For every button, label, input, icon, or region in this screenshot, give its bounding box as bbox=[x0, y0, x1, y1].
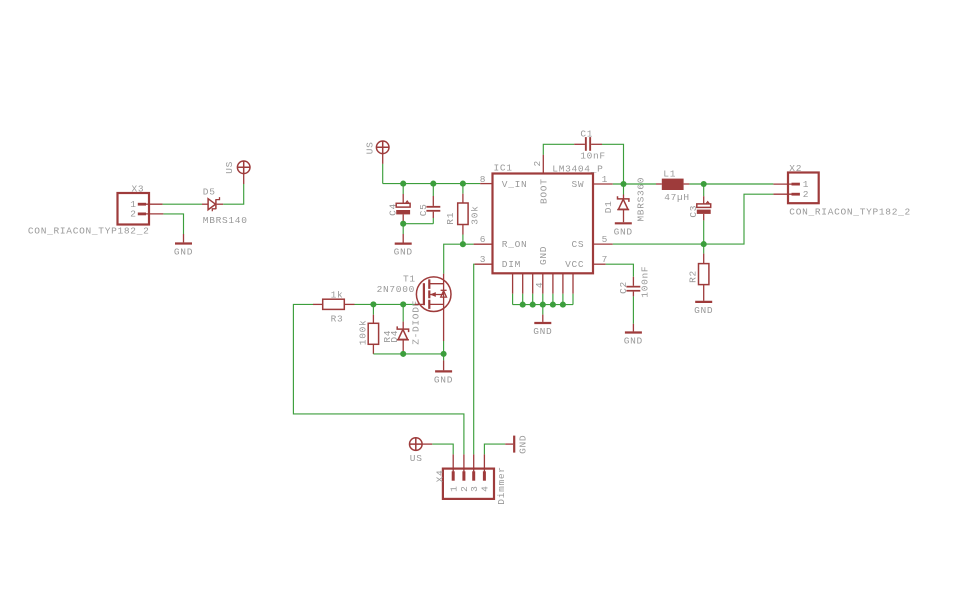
wire D5 cathode to supply US corner bbox=[223, 184, 244, 204]
resistor R4 100k bbox=[357, 315, 393, 354]
node junction D4/gate rail bbox=[400, 301, 406, 307]
ground below T1 bbox=[434, 360, 453, 385]
svg-text:GND: GND bbox=[434, 374, 453, 385]
svg-text:IC1: IC1 bbox=[494, 163, 513, 174]
connector X2 bbox=[788, 163, 911, 218]
wire X4.4 to ground (sideways) bbox=[484, 444, 505, 454]
wire D4 top bbox=[402, 304, 404, 321]
node junction SW/C1/D1 bbox=[620, 181, 626, 187]
ground right of X4 (sideways) bbox=[505, 435, 528, 454]
ground below C4 bbox=[394, 234, 413, 258]
pin IC1.6 R_ON bbox=[474, 243, 493, 245]
svg-text:US: US bbox=[410, 453, 423, 464]
wire to ground below C4 bbox=[402, 224, 404, 234]
pin X3.1 bbox=[144, 203, 163, 205]
wire US down to V_IN rail bbox=[382, 164, 384, 184]
ground below IC bbox=[533, 315, 552, 338]
svg-text:X3: X3 bbox=[132, 183, 145, 194]
svg-text:R2: R2 bbox=[688, 270, 699, 283]
capacitor C5 bbox=[418, 196, 440, 218]
svg-text:100k: 100k bbox=[357, 320, 368, 346]
resistor R3 1k bbox=[313, 290, 355, 325]
node junction R4-D4 rail bbox=[400, 351, 406, 357]
wire X3.2 to ground bbox=[163, 214, 183, 234]
diode D1 MBRS360 bbox=[603, 177, 647, 222]
ground below X3 bbox=[174, 234, 193, 258]
node junction L1/C3 bbox=[701, 181, 707, 187]
svg-text:X2: X2 bbox=[789, 163, 802, 174]
svg-text:7: 7 bbox=[602, 254, 608, 265]
svg-text:1: 1 bbox=[602, 174, 608, 185]
svg-text:LM3404_P: LM3404_P bbox=[552, 163, 603, 174]
zener diode D4 Z-DIODE bbox=[389, 300, 422, 354]
svg-text:30k: 30k bbox=[470, 205, 481, 224]
node junction CS/C3/R2/X2.2 bbox=[701, 241, 707, 247]
pin X4.3 bbox=[473, 454, 475, 473]
pin X3.2 bbox=[144, 213, 163, 215]
svg-text:US: US bbox=[224, 161, 235, 174]
svg-text:GND: GND bbox=[614, 226, 633, 237]
svg-text:10nF: 10nF bbox=[580, 150, 606, 161]
svg-text:BOOT: BOOT bbox=[538, 178, 549, 204]
node junction T1 source bbox=[441, 351, 447, 357]
svg-text:D1: D1 bbox=[603, 200, 614, 213]
wire R1 top bbox=[462, 184, 464, 194]
svg-text:C4: C4 bbox=[388, 203, 399, 216]
supply US (near X4) bbox=[410, 438, 433, 464]
wire source rail (bottom) bbox=[373, 353, 443, 355]
connector X4 Dimmer bbox=[435, 466, 508, 504]
capacitor C4 (polarized) bbox=[388, 194, 411, 222]
wire R2 top bbox=[703, 244, 705, 254]
ground below R2 bbox=[694, 302, 713, 316]
wire C5 top bbox=[432, 184, 434, 196]
capacitor C3 (polarized) bbox=[688, 196, 711, 220]
transistor T1 2N7000 bbox=[377, 274, 451, 341]
resistor R2 bbox=[688, 254, 709, 301]
svg-text:C3: C3 bbox=[688, 205, 699, 218]
node junction R1/R_ON bbox=[460, 241, 466, 247]
wire R1 bottom to R_ON node bbox=[462, 235, 464, 245]
wire C3 bottom to CS node bbox=[703, 220, 705, 244]
svg-text:2: 2 bbox=[130, 209, 136, 220]
pin IC1.7 VCC bbox=[593, 263, 606, 265]
svg-text:GND: GND bbox=[533, 326, 552, 337]
wire BOOT to C1 left bbox=[543, 144, 574, 154]
inductor L1 47uH bbox=[656, 169, 690, 204]
svg-text:C1: C1 bbox=[580, 128, 593, 139]
node junctions on GND bus bbox=[520, 302, 526, 308]
wire R3 left down around to X4.2 bbox=[293, 304, 464, 454]
node junction V_IN/R1 bbox=[460, 181, 466, 187]
supply US (mid, above C4) bbox=[364, 141, 389, 164]
wire SW node down to D1 bbox=[623, 184, 625, 195]
svg-text:GND: GND bbox=[394, 247, 413, 258]
wire C1 right down to SW node bbox=[602, 144, 624, 184]
svg-text:2N7000: 2N7000 bbox=[377, 284, 415, 295]
diode D5 MBRS140 bbox=[202, 186, 248, 225]
pin IC1.1 SW bbox=[593, 183, 613, 185]
svg-text:100nF: 100nF bbox=[639, 266, 650, 298]
pin IC1.5 CS bbox=[593, 243, 613, 245]
svg-text:GND: GND bbox=[624, 336, 643, 347]
IC U1 LM3404 box bbox=[493, 163, 604, 274]
svg-text:L1: L1 bbox=[663, 169, 676, 180]
svg-text:C2: C2 bbox=[618, 281, 629, 294]
svg-text:MBRS360: MBRS360 bbox=[636, 177, 647, 222]
capacitor C2 100nF bbox=[618, 266, 650, 298]
wire SW node to L1 bbox=[613, 183, 656, 185]
pin X2.2 bbox=[773, 193, 793, 195]
svg-text:D4: D4 bbox=[389, 330, 400, 343]
svg-text:R_ON: R_ON bbox=[502, 239, 528, 250]
svg-text:47µH: 47µH bbox=[664, 192, 690, 203]
svg-text:US: US bbox=[364, 141, 375, 154]
svg-text:8: 8 bbox=[480, 174, 486, 185]
svg-text:D5: D5 bbox=[203, 186, 216, 197]
wire CS to node bbox=[613, 243, 704, 245]
wire C4 bottom / C5 bottom bbox=[403, 218, 433, 224]
wire X3.1 to D5 anode bbox=[163, 203, 202, 205]
wire C2 bottom to ground bbox=[632, 296, 634, 323]
svg-text:Z-DIODE: Z-DIODE bbox=[411, 300, 422, 345]
svg-text:DIM: DIM bbox=[502, 259, 521, 270]
svg-text:R1: R1 bbox=[445, 212, 456, 225]
capacitor C1 10nF bbox=[574, 128, 606, 161]
svg-text:VCC: VCC bbox=[565, 259, 584, 270]
wire US to X4.1 bbox=[432, 444, 453, 454]
wire DIM down to X4.3 bbox=[473, 264, 476, 454]
svg-text:T1: T1 bbox=[403, 274, 416, 285]
svg-text:GND: GND bbox=[538, 246, 549, 265]
svg-text:3: 3 bbox=[469, 485, 480, 491]
resistor R1 30k bbox=[445, 194, 481, 235]
svg-text:SW: SW bbox=[571, 179, 584, 190]
pin X2.1 bbox=[773, 183, 793, 185]
svg-text:1: 1 bbox=[449, 485, 460, 491]
svg-text:6: 6 bbox=[480, 234, 486, 245]
svg-text:5: 5 bbox=[602, 234, 608, 245]
svg-text:CON_RIACON_TYP182_2: CON_RIACON_TYP182_2 bbox=[28, 226, 150, 237]
pin IC1.2 BOOT bbox=[542, 155, 544, 174]
wire V_IN rail bbox=[383, 183, 481, 185]
svg-text:Dimmer: Dimmer bbox=[496, 466, 507, 504]
svg-text:C5: C5 bbox=[418, 203, 429, 216]
wire T1 source down bbox=[443, 341, 445, 360]
svg-text:3: 3 bbox=[480, 254, 486, 265]
node junction V_IN/C5 bbox=[430, 181, 436, 187]
pin X4.4 bbox=[483, 454, 485, 473]
wire R4 top bbox=[372, 304, 374, 314]
svg-text:R3: R3 bbox=[331, 314, 344, 325]
pin IC1.8 V_IN bbox=[480, 183, 492, 185]
wire R_ON node to T1 drain bbox=[444, 244, 474, 274]
pin X4.1 bbox=[452, 454, 454, 473]
svg-text:V_IN: V_IN bbox=[502, 179, 528, 190]
connector X3 bbox=[28, 183, 150, 236]
svg-text:GND: GND bbox=[694, 305, 713, 316]
wire R3 right to gate rail bbox=[355, 303, 415, 305]
svg-text:X4: X4 bbox=[435, 470, 446, 483]
svg-text:2: 2 bbox=[532, 160, 543, 166]
svg-text:GND: GND bbox=[518, 435, 529, 454]
svg-text:GND: GND bbox=[174, 247, 193, 258]
pin IC1.3 DIM bbox=[475, 263, 493, 265]
wire C4 top bbox=[402, 184, 404, 194]
wire bus down to ground bbox=[542, 305, 544, 315]
wire VCC to C2 bbox=[606, 264, 634, 277]
pin X4.2 bbox=[463, 454, 465, 473]
svg-text:1k: 1k bbox=[331, 290, 344, 301]
svg-text:MBRS140: MBRS140 bbox=[203, 215, 248, 226]
wire X2.2 to CS node bbox=[704, 194, 774, 244]
node junction V_IN/C4 bbox=[400, 181, 406, 187]
IC1 bottom GND pins bbox=[513, 273, 573, 304]
ground below D1 bbox=[614, 223, 633, 237]
ground below C2 bbox=[624, 324, 643, 347]
wire down to C3 bbox=[703, 184, 705, 196]
svg-text:CS: CS bbox=[571, 239, 584, 250]
svg-text:4: 4 bbox=[534, 282, 545, 288]
node junction C4/C5/GND bbox=[400, 221, 406, 227]
wire GND bus under IC bbox=[513, 304, 573, 306]
svg-text:CON_RIACON_TYP182_2: CON_RIACON_TYP182_2 bbox=[789, 207, 911, 218]
node junction R4/gate rail bbox=[370, 301, 376, 307]
svg-text:2: 2 bbox=[803, 189, 809, 200]
wire L1 to X2.1 bbox=[689, 183, 773, 185]
supply US (left) bbox=[224, 161, 250, 184]
svg-text:4: 4 bbox=[480, 485, 491, 491]
